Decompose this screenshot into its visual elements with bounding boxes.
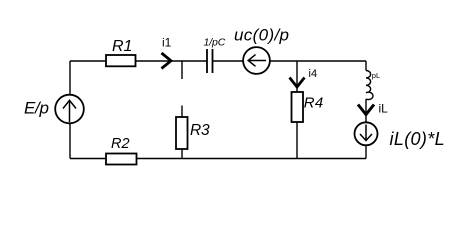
svg-text:R1: R1 — [112, 38, 132, 55]
svg-text:i4: i4 — [309, 68, 318, 80]
svg-text:pL: pL — [372, 71, 380, 80]
source iL(0)*L — [355, 122, 445, 149]
wire bottom horizontal — [70, 158, 366, 160]
source E/p — [24, 95, 84, 124]
resistor R2 — [106, 136, 137, 165]
wire top horizontal right part — [213, 60, 367, 62]
current arrow i4 — [290, 68, 318, 87]
wire stub below node after i1 — [181, 61, 183, 79]
wire R4 branch vertical — [296, 61, 298, 159]
capacitor C 1/pC — [204, 37, 226, 74]
resistor R1 — [106, 38, 136, 66]
svg-text:uc(0)/p: uc(0)/p — [234, 26, 289, 45]
svg-text:R3: R3 — [190, 122, 210, 139]
wire left vertical — [69, 61, 71, 159]
wire top horizontal left part — [70, 60, 207, 62]
current arrow i1 — [162, 36, 172, 69]
resistor R3 — [176, 117, 210, 149]
svg-text:R4: R4 — [304, 95, 324, 112]
svg-text:iL: iL — [379, 102, 389, 116]
svg-text:iL(0)*L: iL(0)*L — [390, 129, 445, 149]
svg-text:E/p: E/p — [24, 98, 49, 117]
resistor R4 — [292, 92, 324, 122]
inductor pL — [366, 71, 380, 100]
source uc(0)/p — [234, 26, 289, 74]
wire R3 branch vertical — [181, 106, 183, 159]
wire right branch lower — [365, 99, 367, 159]
wire right branch upper — [365, 61, 367, 71]
svg-text:1/pC: 1/pC — [204, 37, 226, 49]
svg-text:R2: R2 — [111, 136, 130, 152]
svg-text:i1: i1 — [162, 36, 172, 50]
current arrow iL — [358, 102, 388, 116]
